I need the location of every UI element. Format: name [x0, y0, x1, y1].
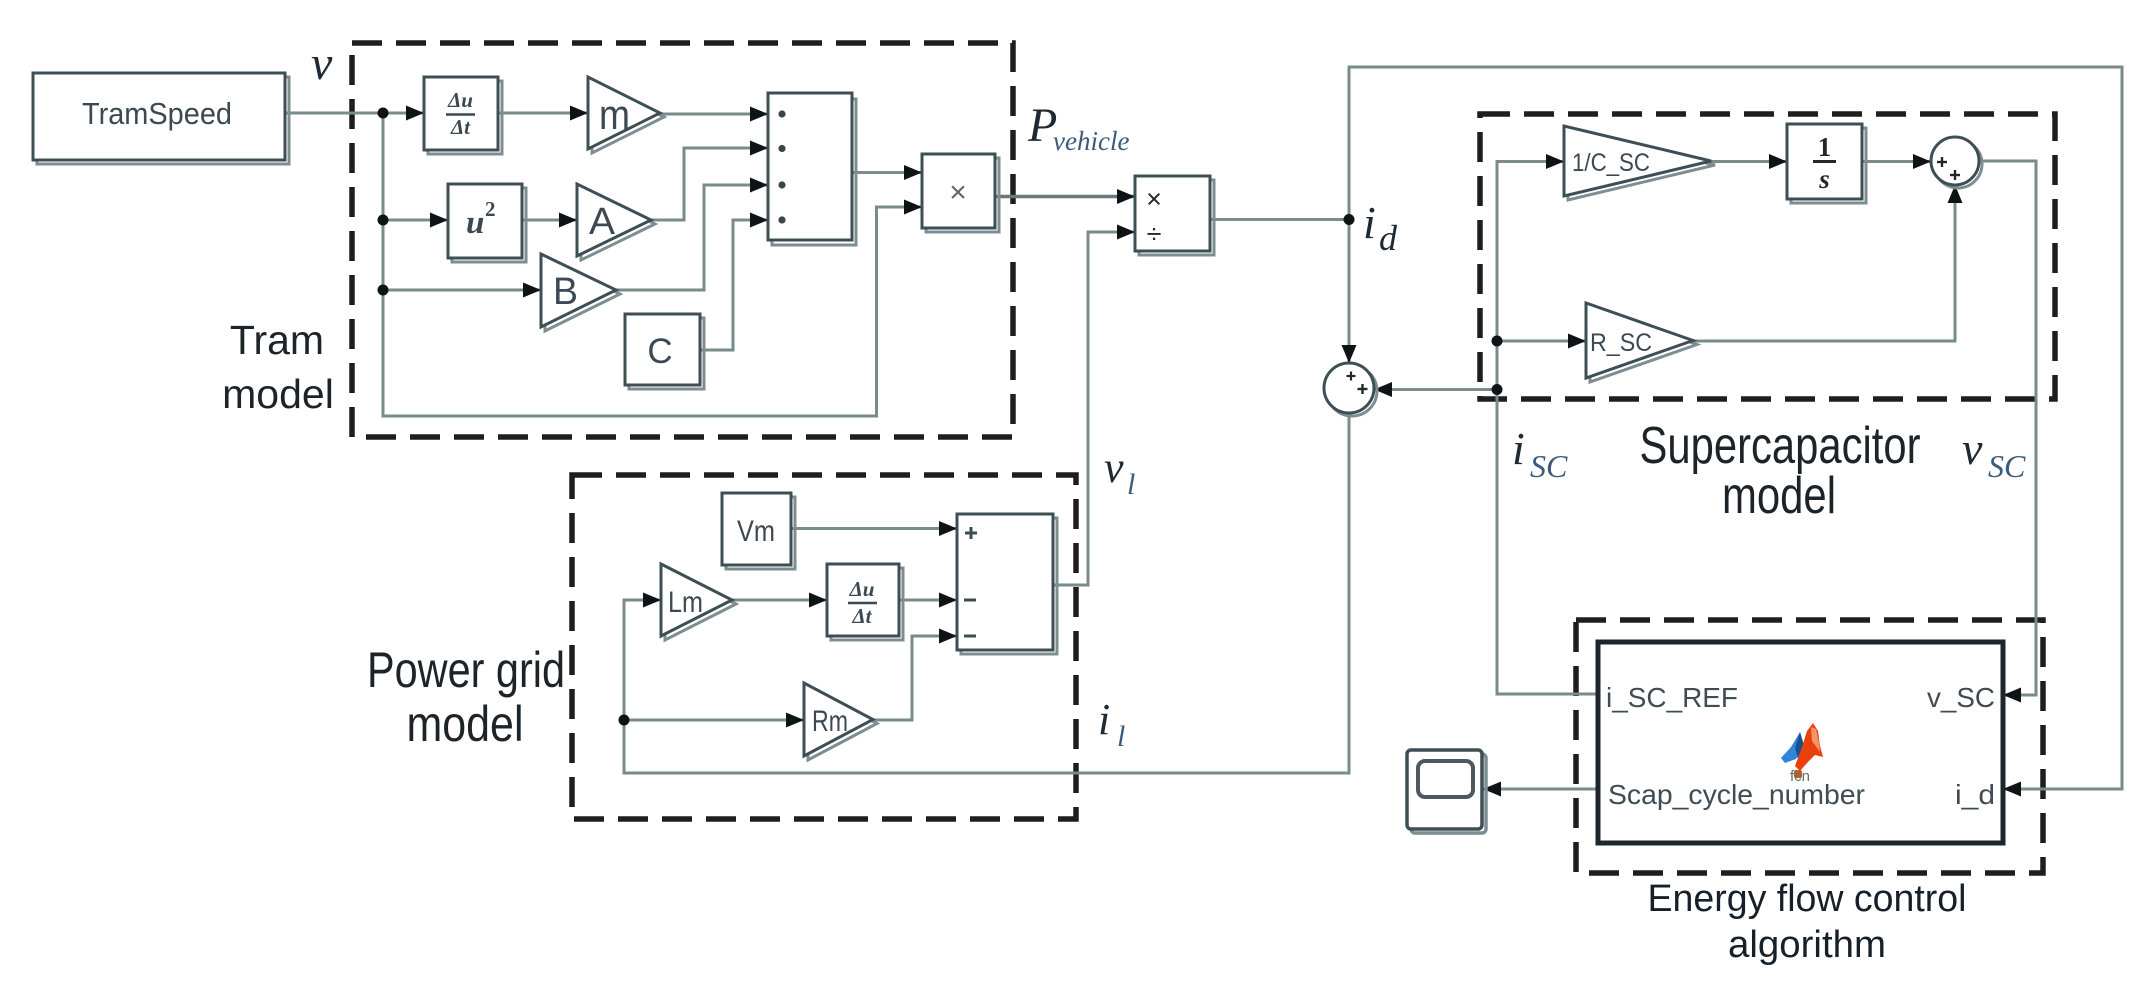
wire: node down into sum circle top	[1348, 220, 1351, 364]
svg-text:v: v	[311, 37, 333, 90]
svg-text:i: i	[1363, 197, 1376, 248]
wire: gain B to sum input 3	[616, 185, 768, 290]
gain Lm	[661, 564, 736, 640]
wire v_SC: SC sum circle output down into v_SC port	[1979, 161, 2036, 695]
dashed region box: Energy flow control algorithm	[1576, 620, 2043, 873]
svg-text:Energy flow control: Energy flow control	[1648, 878, 1967, 920]
svg-text:algorithm: algorithm	[1728, 924, 1886, 966]
svg-text:1/C_SC: 1/C_SC	[1572, 149, 1650, 177]
wire v_l: grid sum output up to divide input 2	[1053, 232, 1135, 585]
wire: gain A to sum input 2	[651, 148, 768, 220]
svg-text:×: ×	[1146, 184, 1162, 214]
svg-text:i_SC_REF: i_SC_REF	[1606, 682, 1738, 713]
svg-text:TramSpeed: TramSpeed	[82, 96, 232, 131]
svg-text:i_d: i_d	[1955, 779, 1995, 810]
block derivative du/dt (grid)	[827, 564, 903, 640]
svg-text:B: B	[553, 271, 578, 313]
wire: Delta-u/Delta-t to gain m	[498, 112, 588, 115]
wire: grid derivative to grid sum minus 1	[899, 599, 957, 602]
wire: branch to u^2	[383, 219, 448, 222]
svg-text:Δu: Δu	[447, 88, 473, 112]
wire P_vehicle: product output to divide input 1	[995, 195, 1135, 199]
dashed region box: Tram model	[352, 43, 1013, 437]
svg-text:v_SC: v_SC	[1927, 682, 1995, 713]
sum block (grid, plus minus minus)	[957, 514, 1057, 654]
svg-text:model: model	[407, 696, 524, 752]
divide block x over division	[1135, 176, 1214, 255]
svg-text:×: ×	[949, 176, 967, 209]
dashed region box: Supercapacitor model	[1480, 114, 2055, 399]
svg-text:Rm: Rm	[812, 705, 848, 738]
block u^2	[448, 184, 526, 262]
svg-text:C: C	[647, 332, 672, 371]
svg-text:2: 2	[485, 197, 496, 221]
svg-text:i: i	[1098, 695, 1110, 744]
node dot on B branch	[378, 285, 389, 296]
wire i_l: sum circle output down, left along bottom, up into gain Lm	[624, 413, 1349, 773]
svg-text:SC: SC	[1988, 448, 2026, 484]
gain B	[541, 254, 620, 331]
wire: node up, across top and down right side into i_d port	[1349, 67, 2122, 789]
block derivative du/dt (tram)	[424, 77, 502, 154]
block TramSpeed	[33, 73, 289, 164]
node dot i_d junction	[1344, 214, 1355, 225]
node dot on i_SC branch	[1492, 384, 1503, 395]
svg-text:u: u	[466, 205, 484, 241]
svg-text:l: l	[1127, 468, 1135, 501]
svg-text:Power grid: Power grid	[367, 642, 565, 698]
wire: Vm to grid sum plus	[791, 527, 957, 530]
wire: branch to gain Rm	[624, 719, 804, 722]
svg-text:model: model	[222, 371, 334, 417]
svg-text:Δu: Δu	[849, 577, 875, 601]
wire: branch to gain R_SC	[1497, 340, 1586, 343]
wire i_d: divide output to junction node	[1210, 218, 1349, 221]
node dot on v wire	[378, 108, 389, 119]
svg-text:Vm: Vm	[737, 515, 775, 548]
wire: gain Lm to grid derivative	[732, 599, 827, 602]
integrator block 1/s	[1787, 124, 1866, 203]
wire: branch to gain B	[383, 289, 541, 292]
MATLAB fcn logo	[1781, 723, 1823, 785]
block Vm	[722, 493, 795, 569]
wire: gain R_SC output up into SC sum circle bottom	[1693, 185, 1955, 341]
sum circle (SC model, plus plus)	[1931, 137, 1982, 188]
sum block (tram, four plus inputs)	[768, 93, 856, 245]
wire: sum output to product input 1	[852, 171, 922, 174]
gain m	[588, 77, 664, 153]
svg-text:Lm: Lm	[668, 586, 703, 619]
wire: 1/C_SC to integrator	[1711, 160, 1787, 163]
svg-text:Δt: Δt	[851, 604, 872, 628]
svg-text:Δt: Δt	[450, 115, 471, 139]
svg-text:d: d	[1379, 218, 1398, 258]
wire: Scap_cycle_number output to Scope	[1483, 788, 1598, 791]
wire: v distribution line down, bottom feedback and riser into product input 2	[383, 113, 922, 416]
svg-text:Scap_cycle_number: Scap_cycle_number	[1608, 779, 1865, 810]
wire: u^2 to gain A	[522, 219, 577, 222]
wire i_SC_REF: from control block output up to 1/C_SC input	[1497, 162, 1598, 695]
svg-text:v: v	[1104, 443, 1124, 492]
dashed region box: Power grid model	[572, 475, 1076, 819]
wire: block C to sum input 4	[700, 220, 768, 350]
wire i_SC: branch left into sum circle right input	[1374, 388, 1497, 391]
svg-text:1: 1	[1818, 132, 1832, 162]
svg-text:fcn: fcn	[1790, 768, 1810, 785]
product block x	[922, 154, 999, 232]
gain A	[577, 184, 655, 260]
Scope block	[1407, 750, 1486, 833]
svg-text:i: i	[1512, 423, 1525, 474]
gain Rm	[804, 683, 877, 760]
svg-text:vehicle: vehicle	[1053, 126, 1129, 156]
wire: gain m to sum input 1	[660, 113, 768, 116]
MATLAB function block (Energy flow control algorithm)	[1598, 642, 2003, 843]
svg-text:SC: SC	[1530, 448, 1568, 484]
svg-text:model: model	[1722, 467, 1836, 525]
node dot on Rm branch	[619, 715, 630, 726]
svg-text:s: s	[1818, 164, 1830, 194]
svg-text:R_SC: R_SC	[1590, 329, 1652, 357]
sum circle (left, i_d minus i_SC)	[1324, 363, 1377, 416]
wire: integrator to SC sum circle	[1862, 160, 1931, 163]
block C	[625, 314, 704, 389]
gain 1/C_SC	[1564, 126, 1715, 200]
svg-text:÷: ÷	[1147, 219, 1162, 249]
node dot on R_SC branch	[1492, 336, 1503, 347]
gain R_SC	[1586, 303, 1697, 382]
svg-text:v: v	[1962, 423, 1983, 474]
node dot on u^2 branch	[378, 215, 389, 226]
svg-text:l: l	[1117, 720, 1125, 753]
wire: gain Rm to grid sum minus 2	[873, 636, 957, 720]
svg-text:m: m	[599, 91, 630, 138]
svg-text:Tram: Tram	[230, 317, 324, 363]
svg-text:A: A	[589, 201, 616, 243]
wire v: TramSpeed output to Delta-u/Delta-t input	[285, 112, 424, 115]
